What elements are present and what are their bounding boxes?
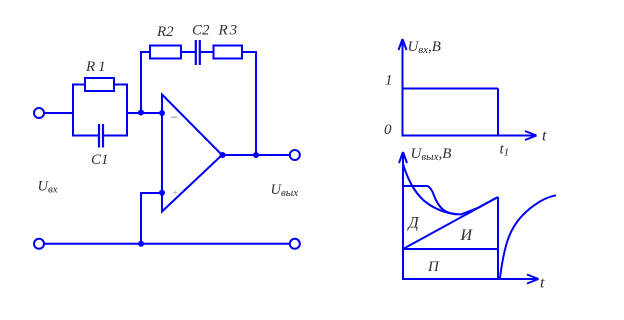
D clipped curve [403, 186, 457, 214]
svg-text:Д: Д [407, 215, 420, 232]
svg-text:R1: R1 [85, 59, 109, 75]
arrowhead right bottom [527, 275, 539, 284]
arrowhead right [525, 131, 537, 140]
bottom rail wire [45, 243, 290, 245]
capacitor C2 [196, 40, 200, 65]
wire top branch left [72, 84, 85, 86]
svg-text:t: t [540, 275, 545, 292]
parallel block left vertical wire [72, 85, 74, 136]
wire feedback to R2 [140, 51, 150, 53]
axis Uvyx vertical [402, 153, 404, 280]
wire input to parallel block [45, 112, 74, 114]
svg-text:1: 1 [385, 73, 393, 89]
right edge t1 vertical [497, 197, 499, 279]
axis Uvx vertical [402, 40, 404, 137]
svg-text:И: И [460, 227, 474, 244]
svg-text:C1: C1 [91, 152, 109, 168]
axis t horizontal bottom [402, 278, 538, 280]
wire C2 to R3 [201, 51, 214, 53]
resistor R3 [214, 46, 243, 59]
I ramp line [403, 197, 498, 249]
node dot at op-amp non-inverting input [159, 190, 165, 196]
top graph [399, 39, 537, 140]
wire R2 to C2 [181, 51, 195, 53]
bottom left terminal circle [34, 239, 44, 249]
svg-text:0: 0 [384, 122, 392, 138]
svg-text:+: + [172, 188, 179, 199]
arrowhead up bottom graph [399, 152, 407, 163]
bottom right terminal circle [290, 239, 300, 249]
wire block to op-amp input [127, 112, 162, 114]
wire top branch right [114, 84, 128, 86]
node dot bottom rail junction [138, 241, 144, 247]
input terminal circle left [34, 108, 44, 118]
node dot at op-amp output apex [220, 152, 226, 158]
resistor R2 [150, 46, 181, 59]
arrowhead up [399, 39, 407, 50]
svg-text:П: П [427, 259, 440, 275]
wire bottom branch left [72, 135, 98, 137]
op-amp U1 triangle [162, 95, 222, 212]
svg-text:C2: C2 [192, 23, 210, 39]
wire non-inverting horizontal [140, 192, 162, 194]
svg-text:t: t [542, 128, 547, 145]
node dot inverting input feedback tap [138, 110, 144, 116]
wire bottom branch right [104, 135, 128, 137]
wire R3 to corner [242, 51, 256, 53]
output terminal circle [290, 150, 300, 160]
op-amp minus mark [171, 117, 177, 119]
node dot output feedback junction [253, 152, 259, 158]
axis t horizontal [402, 135, 536, 137]
node dot at op-amp inverting input [159, 110, 165, 116]
svg-text:R3: R3 [218, 23, 240, 39]
parallel block right vertical wire [126, 85, 128, 136]
step right edge [497, 89, 499, 136]
step top [403, 88, 499, 90]
wire output [222, 154, 290, 156]
capacitor C1 [99, 124, 103, 148]
D ideal spike curve [403, 164, 497, 214]
wire feedback vertical down to output [255, 51, 257, 155]
wire feedback vertical up [140, 52, 142, 113]
svg-text:R2: R2 [156, 24, 174, 40]
P rectangle top [403, 248, 498, 250]
response after t1 curve [500, 195, 556, 278]
bottom graph [399, 152, 556, 284]
wire non-inverting vertical [140, 193, 142, 244]
resistor R1 [85, 78, 114, 91]
